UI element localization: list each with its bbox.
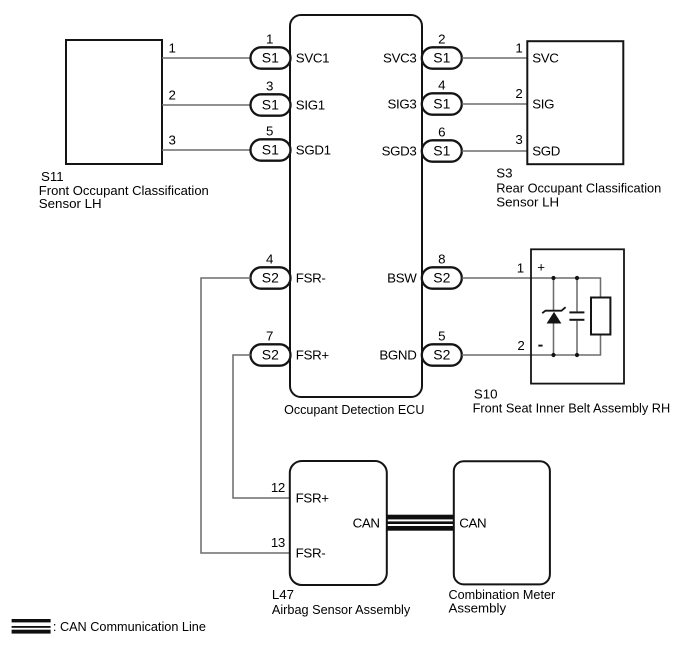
ECU terminal SGD1 xyxy=(296,143,331,158)
node - xyxy=(538,345,542,347)
svg-text:+: + xyxy=(537,260,545,275)
L47 terminal FSR+ xyxy=(296,491,330,506)
svg-text:SVC3: SVC3 xyxy=(383,51,416,66)
connector S2 pin5 BGND xyxy=(422,328,462,365)
svg-text:S2: S2 xyxy=(262,347,279,363)
CAN communication line bus xyxy=(387,515,454,531)
connector S1 pin4 SIG3 xyxy=(422,77,462,114)
svg-text:8: 8 xyxy=(438,251,445,266)
svg-text:: CAN Communication Line: : CAN Communication Line xyxy=(53,619,206,634)
svg-text:Rear Occupant Classification: Rear Occupant Classification xyxy=(496,180,661,195)
svg-text:Front Seat Inner Belt Assembly: Front Seat Inner Belt Assembly RH xyxy=(473,401,671,416)
svg-text:SIG1: SIG1 xyxy=(296,98,325,113)
pin 13 (L47) xyxy=(271,535,285,550)
svg-text:4: 4 xyxy=(266,251,273,266)
legend CAN line symbol xyxy=(12,619,51,634)
ECU terminal FSR+ xyxy=(296,348,330,363)
junction dot bottom zener xyxy=(551,353,555,357)
sensor box S11 xyxy=(66,40,162,164)
svg-text:SIG: SIG xyxy=(532,97,554,112)
svg-text:BSW: BSW xyxy=(387,271,417,286)
pin 3 (S3) xyxy=(515,132,522,147)
wire S11 pin1 to S1 xyxy=(162,57,251,59)
pin 3 (S11) xyxy=(169,133,176,148)
box Combination Meter Assembly xyxy=(454,461,550,584)
wire FSR+ to L47 pin12 xyxy=(233,355,290,498)
label L47 xyxy=(272,587,411,617)
svg-text:Occupant Detection ECU: Occupant Detection ECU xyxy=(284,402,424,417)
ECU box Occupant Detection ECU xyxy=(290,15,422,397)
svg-text:1: 1 xyxy=(517,261,524,276)
svg-text:Assembly: Assembly xyxy=(449,601,507,616)
svg-text:SGD: SGD xyxy=(532,144,560,159)
sensor box S3 xyxy=(527,41,623,164)
svg-text:L47: L47 xyxy=(272,587,294,602)
ECU terminal BSW xyxy=(387,271,417,286)
wire zener branch xyxy=(553,278,555,355)
node + xyxy=(537,260,545,275)
svg-text:1: 1 xyxy=(169,41,176,56)
svg-text:5: 5 xyxy=(438,328,445,343)
svg-text:BGND: BGND xyxy=(379,348,416,363)
svg-text:Airbag Sensor Assembly: Airbag Sensor Assembly xyxy=(272,602,411,617)
pin 1 (S3) xyxy=(515,41,522,56)
svg-text:FSR+: FSR+ xyxy=(296,348,330,363)
ECU box L47 Airbag Sensor Assembly xyxy=(290,461,387,585)
svg-text:3: 3 xyxy=(266,78,273,93)
label S10 xyxy=(473,386,671,415)
svg-text:SVC: SVC xyxy=(532,51,559,66)
svg-text:SGD1: SGD1 xyxy=(296,143,331,158)
pin 12 (L47) xyxy=(271,480,285,495)
svg-text:S1: S1 xyxy=(262,97,279,113)
svg-text:13: 13 xyxy=(271,535,285,550)
connector S1 pin2 SVC3 xyxy=(422,31,462,68)
svg-text:S1: S1 xyxy=(433,50,450,66)
svg-text:SVC1: SVC1 xyxy=(296,51,329,66)
wire SIG3 to S3 pin2 xyxy=(462,103,527,105)
L47 terminal CAN xyxy=(353,516,380,531)
svg-text:5: 5 xyxy=(266,123,273,138)
junction dot top capacitor xyxy=(575,276,579,280)
svg-text:FSR+: FSR+ xyxy=(296,491,330,506)
connector S1 pin1 SVC1 xyxy=(251,31,291,68)
svg-text:S2: S2 xyxy=(433,270,450,286)
svg-text:SGD3: SGD3 xyxy=(382,144,417,159)
L47 terminal FSR- xyxy=(296,546,326,561)
svg-text:1: 1 xyxy=(266,31,273,46)
Combination Meter terminal CAN xyxy=(459,515,486,530)
resistor R1 xyxy=(591,298,610,335)
svg-text:FSR-: FSR- xyxy=(296,546,326,561)
connector S2 pin8 BSW xyxy=(422,251,462,288)
svg-text:2: 2 xyxy=(438,31,445,46)
wire BSW to S10 pin1 xyxy=(462,278,601,298)
label S11 xyxy=(39,169,209,211)
junction dot top zener xyxy=(551,276,555,280)
capacitor C1 xyxy=(569,312,584,319)
svg-text:S1: S1 xyxy=(262,50,279,66)
switch box S10 xyxy=(531,249,624,383)
label Combination Meter Assembly xyxy=(449,587,556,615)
S3 terminal SVC xyxy=(532,51,559,66)
svg-text:S10: S10 xyxy=(474,386,498,401)
wire SVC3 to S3 pin1 xyxy=(462,57,527,59)
wire SGD3 to S3 pin3 xyxy=(462,150,527,152)
S3 terminal SIG xyxy=(532,97,554,112)
svg-text:2: 2 xyxy=(515,86,522,101)
ECU terminal SVC1 xyxy=(296,51,329,66)
pin 1 (S11) xyxy=(169,41,176,56)
svg-text:12: 12 xyxy=(271,480,285,495)
connector S1 pin6 SGD3 xyxy=(422,124,462,161)
svg-text:Sensor LH: Sensor LH xyxy=(496,194,559,209)
wire S11 pin3 to S1 xyxy=(162,149,251,151)
svg-text:1: 1 xyxy=(515,41,522,56)
svg-text:S1: S1 xyxy=(433,143,450,159)
ECU terminal SGD3 xyxy=(382,144,417,159)
ECU terminal BGND xyxy=(379,348,416,363)
label Occupant Detection ECU xyxy=(284,402,424,417)
ECU terminal SIG3 xyxy=(387,97,416,112)
connector S2 pin4 FSR- xyxy=(251,251,291,288)
svg-text:3: 3 xyxy=(169,133,176,148)
svg-text:S2: S2 xyxy=(433,347,450,363)
svg-text:4: 4 xyxy=(438,77,445,92)
pin 1 (S10) xyxy=(517,261,524,276)
svg-text:2: 2 xyxy=(517,338,524,353)
wire S11 pin2 to S1 xyxy=(162,104,251,106)
svg-text:7: 7 xyxy=(266,328,273,343)
connector S1 pin5 SGD1 xyxy=(251,123,291,160)
svg-text:FSR-: FSR- xyxy=(296,271,326,286)
svg-text:2: 2 xyxy=(169,88,176,103)
wire BGND to S10 pin2 xyxy=(462,335,601,356)
connector S1 pin3 SIG1 xyxy=(251,78,291,115)
S3 terminal SGD xyxy=(532,144,560,159)
junction dot bottom capacitor xyxy=(575,353,579,357)
svg-text:S11: S11 xyxy=(41,169,64,184)
svg-text:S1: S1 xyxy=(433,96,450,112)
ECU terminal SIG1 xyxy=(296,98,325,113)
pin 2 (S11) xyxy=(169,88,176,103)
svg-text:SIG3: SIG3 xyxy=(387,97,416,112)
zener diode D1 xyxy=(542,307,565,323)
pin 2 (S10) xyxy=(517,338,524,353)
svg-text:3: 3 xyxy=(515,132,522,147)
legend text CAN Communication Line xyxy=(53,619,206,634)
label S3 xyxy=(496,165,661,209)
ECU terminal SVC3 xyxy=(383,51,416,66)
wire FSR- to L47 pin13 xyxy=(201,278,290,553)
svg-text:S1: S1 xyxy=(262,142,279,158)
svg-text:S3: S3 xyxy=(496,165,512,180)
wire capacitor branch xyxy=(576,278,578,355)
svg-text:CAN: CAN xyxy=(353,516,380,531)
pin 2 (S3) xyxy=(515,86,522,101)
svg-text:S2: S2 xyxy=(262,270,279,286)
svg-text:CAN: CAN xyxy=(459,515,486,530)
ECU terminal FSR- xyxy=(296,271,326,286)
svg-text:Sensor LH: Sensor LH xyxy=(39,196,102,211)
connector S2 pin7 FSR+ xyxy=(251,328,291,365)
svg-text:6: 6 xyxy=(438,124,445,139)
